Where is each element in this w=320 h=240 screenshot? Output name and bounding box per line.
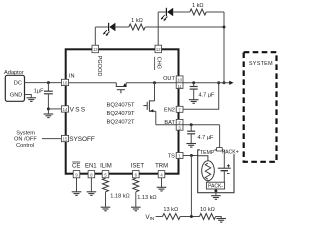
resistor R1 1 kOhm <box>129 24 145 30</box>
svg-text:14: 14 <box>63 107 68 112</box>
node A junction dot (DC / C1 / IN) <box>47 81 50 84</box>
ground (C2) <box>189 100 199 104</box>
LED D1 <box>103 23 116 36</box>
pin IN (16) <box>61 79 68 85</box>
wire TMR stub to ground <box>161 178 163 187</box>
transistor Q2 (battery FET) <box>143 83 176 125</box>
wire C1 bottom to VSS pin <box>48 108 61 110</box>
svg-text:1µF: 1µF <box>34 89 44 95</box>
wire D2 to R2 <box>173 11 190 13</box>
wire EN1 stub to ground <box>90 178 92 192</box>
wire control to SYSOFF pin <box>42 138 61 140</box>
svg-text:BQ24079T: BQ24079T <box>107 111 135 117</box>
wire EN2 to OUT net <box>183 83 219 110</box>
svg-text:4.7 µF: 4.7 µF <box>198 135 215 141</box>
ground (adaptor) <box>27 98 37 102</box>
wire R1 to OUT net vertical <box>145 26 224 28</box>
svg-text:12: 12 <box>156 47 161 52</box>
wire adaptor GND stub <box>25 95 32 98</box>
wire riser to LED D1 <box>95 26 108 28</box>
pin SYSOFF (15) <box>61 135 68 141</box>
ground (CE) <box>72 192 82 196</box>
capacitor C2 4.7uF <box>190 83 215 100</box>
svg-text:13: 13 <box>93 47 98 52</box>
svg-text:10: 10 <box>177 78 182 83</box>
svg-text:Adaptor: Adaptor <box>4 70 24 76</box>
svg-text:1 kΩ: 1 kΩ <box>192 3 204 9</box>
node I junction dot (pack bottom) <box>214 189 217 192</box>
resistor R6 10 kOhm <box>200 214 216 220</box>
System ON/OFF control label <box>14 130 37 149</box>
part number label BQ24075T / BQ24079T / BQ24072T <box>107 103 135 126</box>
wire BAT rail <box>183 124 220 126</box>
svg-text:DC: DC <box>14 80 22 86</box>
resistor R4 1.13 kOhm (ISET) <box>133 178 157 207</box>
svg-text:OUT: OUT <box>163 76 175 82</box>
node J junction dot (divider tap) <box>190 215 193 218</box>
svg-text:PGOOD: PGOOD <box>96 56 102 77</box>
pin CE (9) <box>73 171 80 178</box>
node G junction dot (BAT / C3) <box>190 123 193 126</box>
pin CHG (12) <box>155 45 162 53</box>
wire TS to pack <box>183 155 198 157</box>
svg-text:IN: IN <box>69 74 75 80</box>
pin ILIM (5) <box>102 171 109 178</box>
svg-text:EN1: EN1 <box>85 163 97 169</box>
wire internal rail IN to FET Q1 <box>69 82 117 84</box>
ground (pack) <box>211 196 221 200</box>
pin VSS (14) <box>61 106 68 112</box>
capacitor C1 1uF <box>34 83 53 114</box>
ground (EN1) <box>87 192 97 196</box>
svg-text:VSS: VSS <box>70 107 87 114</box>
svg-text:Control: Control <box>16 143 34 149</box>
ground (R3) <box>101 207 111 211</box>
transistor Q1 (input pass FET) <box>116 83 126 94</box>
svg-text:SYSOFF: SYSOFF <box>69 136 95 143</box>
battery pack box <box>198 149 239 193</box>
wire CE stub to ground <box>76 178 78 192</box>
wire PGOOD riser <box>94 27 96 45</box>
pin ISET (6) <box>133 171 140 178</box>
wire TS divider vertical <box>190 156 192 217</box>
wire VIN to R5 <box>156 216 163 218</box>
node H junction dot (TS / divider) <box>190 154 193 157</box>
node D junction dot (R1 net / vertical) <box>223 26 226 29</box>
wire riser to LED D2 <box>158 11 166 13</box>
wire rail Q1 to OUT pin <box>126 82 176 84</box>
wire pack to ground <box>215 193 217 196</box>
wire R2 to corner <box>206 11 224 13</box>
ground (TMR) <box>157 187 167 191</box>
svg-text:GND: GND <box>10 93 22 99</box>
pin PGOOD (13) <box>92 45 99 53</box>
svg-text:SYSTEM: SYSTEM <box>249 61 273 67</box>
pin BAT (2,3) <box>176 119 183 124</box>
PACK- terminal box <box>206 182 224 193</box>
wire OUT rail to system arrow <box>176 82 230 84</box>
ground (C1 / VSS) <box>44 114 54 118</box>
svg-text:15: 15 <box>63 137 68 142</box>
ground (C3) <box>186 144 196 148</box>
svg-text:TRM: TRM <box>155 163 168 169</box>
resistor R5 13 kOhm <box>163 214 181 220</box>
Adaptor source box <box>4 70 25 102</box>
wire OUT net vertical (LEDs / OUT / EN2) <box>223 12 225 83</box>
svg-text:TEMP: TEMP <box>200 150 215 156</box>
svg-text:System: System <box>16 130 35 136</box>
ground (R4) <box>131 207 141 211</box>
svg-text:16: 16 <box>63 81 68 86</box>
svg-text:4.7 µF: 4.7 µF <box>199 92 216 98</box>
SYSTEM dashed box <box>244 52 277 162</box>
svg-text:ISET: ISET <box>131 163 145 169</box>
node C junction dot (rail to Q2) <box>153 81 156 84</box>
pin EN1 (8) <box>88 171 95 178</box>
svg-text:BAT: BAT <box>164 120 175 126</box>
wire R6 to ground <box>216 217 222 219</box>
svg-text:BQ24072T: BQ24072T <box>107 120 135 126</box>
wire adaptor DC to IN pin <box>25 82 62 84</box>
pin TMR (4) <box>158 171 165 178</box>
svg-text:CE: CE <box>72 163 80 169</box>
wire D1 to R1 <box>115 26 128 28</box>
node F junction dot (OUT / C2) <box>192 81 195 84</box>
node E junction dot (vertical / OUT rail) <box>223 81 226 84</box>
svg-text:BQ24075T: BQ24075T <box>107 103 135 109</box>
wire BAT drop to pack <box>219 125 221 148</box>
node B junction dot (C1 bottom / VSS) <box>47 107 50 110</box>
capacitor C3 4.7uF <box>187 125 214 143</box>
node E2 junction dot (EN2 riser / OUT rail) <box>217 81 220 84</box>
svg-text:10 kΩ: 10 kΩ <box>200 207 215 213</box>
wire CHG riser <box>157 12 159 45</box>
svg-text:ILIM: ILIM <box>100 163 112 169</box>
node VIN label <box>145 214 154 221</box>
wire R5 to node J <box>180 216 199 218</box>
thermistor RT1 <box>198 156 215 182</box>
pin TS (1) <box>176 153 183 159</box>
svg-text:CHG: CHG <box>156 57 162 69</box>
svg-text:1.18 kΩ: 1.18 kΩ <box>110 194 129 200</box>
PACK+ terminal <box>217 148 223 151</box>
svg-text:1.13 kΩ: 1.13 kΩ <box>137 195 156 201</box>
pin OUT (10,11) <box>176 76 183 83</box>
svg-text:PACK-: PACK- <box>208 184 223 190</box>
svg-text:ON /OFF: ON /OFF <box>14 137 37 143</box>
svg-text:EN2: EN2 <box>164 107 175 113</box>
svg-text:11: 11 <box>177 84 182 89</box>
svg-text:IN: IN <box>150 216 155 221</box>
svg-text:1 kΩ: 1 kΩ <box>131 18 143 24</box>
battery cell BT1 <box>218 150 231 182</box>
resistor R3 1.18 kOhm (ILIM) <box>103 178 130 207</box>
svg-text:13 kΩ: 13 kΩ <box>163 207 178 213</box>
svg-text:TS: TS <box>168 154 175 160</box>
resistor R2 1 kOhm <box>190 9 206 15</box>
ground (R6) <box>216 219 226 223</box>
LED D2 <box>161 8 174 21</box>
IC U1 BQ24075T body <box>66 49 179 173</box>
pin EN2 (7) <box>176 106 183 112</box>
